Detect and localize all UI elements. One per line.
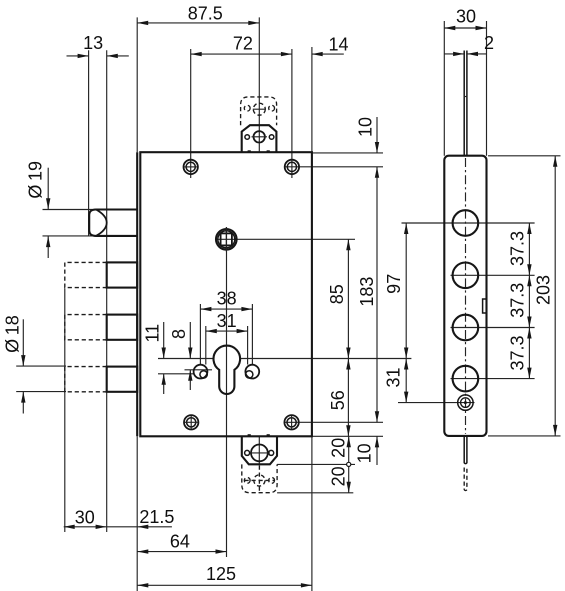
svg-text:31: 31 — [217, 311, 237, 331]
bottom deviator housing (dashed) — [242, 464, 277, 492]
dim 31 cluster line — [206, 329, 248, 333]
SECTION: left view — [65, 97, 312, 493]
wire strip screw center line — [398, 402, 475, 404]
svg-text:21.5: 21.5 — [139, 507, 174, 527]
bottom deviator dashed small hole right — [269, 478, 275, 484]
connecting rod top — [464, 51, 467, 156]
wire extension through top-left screw — [190, 49, 192, 178]
wire body bottom edge extension right — [312, 435, 383, 437]
dim 38 line — [200, 307, 252, 311]
svg-text:10: 10 — [355, 117, 375, 137]
wire bolt3 bottom extension line — [16, 391, 66, 393]
screw top-right — [285, 160, 299, 174]
cylinder fixing hole left outer — [194, 365, 208, 379]
svg-text:8: 8 — [169, 329, 189, 339]
wire strip circle1 center line — [402, 222, 535, 224]
connecting rod bottom dashed — [464, 468, 467, 491]
bolt hole circle 2 — [453, 263, 479, 289]
bottom fixing plate small hole right — [269, 450, 274, 455]
wire body right edge extension (bottom) — [311, 436, 313, 591]
wire 8-dim extension line — [185, 369, 213, 371]
bottom plate tab left — [248, 434, 251, 436]
wire latch top extension line — [43, 209, 138, 211]
wire top hinge centerline — [258, 17, 260, 152]
dim dia18 line — [21, 319, 25, 413]
dim 10 bottom line — [375, 436, 379, 465]
strip centerline dash-dot — [465, 158, 467, 434]
svg-text:85: 85 — [327, 284, 347, 304]
screw bottom-right — [284, 415, 298, 429]
wire latch bottom extension line — [43, 235, 138, 237]
svg-text:37.3: 37.3 — [507, 231, 527, 266]
dim 13 line — [67, 54, 129, 58]
wire bolt-tip retracted plane line — [106, 50, 108, 532]
deadbolt row3 — [107, 367, 138, 392]
bottom deviator dashed bore — [254, 475, 265, 486]
dim 56 line — [346, 359, 350, 437]
top deviator dashed small hole left — [244, 105, 250, 111]
svg-text:37.3: 37.3 — [507, 335, 527, 370]
dim 72 line — [191, 52, 292, 56]
top deviator dashed small hole right — [269, 105, 275, 111]
dim 183 line — [375, 167, 379, 422]
wire bolt-tip extended plane line — [64, 288, 66, 532]
svg-text:14: 14 — [328, 35, 348, 55]
wire bottom hinge centerline — [258, 436, 260, 464]
svg-text:Ø 19: Ø 19 — [26, 161, 46, 199]
wire top screw center extension right — [285, 166, 383, 168]
svg-text:20: 20 — [328, 466, 348, 486]
dim 125 line — [137, 583, 312, 587]
spindle follower inner circle — [218, 231, 235, 248]
bottom fixing plate bore centerline — [249, 452, 270, 454]
dim 64 line — [137, 549, 226, 553]
screw top-left — [184, 160, 198, 174]
top fixing plate (solid) — [242, 125, 277, 152]
svg-text:87.5: 87.5 — [188, 4, 223, 24]
deadbolt row2 — [107, 315, 138, 340]
top fixing plate small hole right — [269, 135, 274, 140]
svg-text:64: 64 — [170, 532, 190, 552]
deadbolt row3 extended (dashed) — [65, 367, 107, 392]
wire strip right edge extension up — [486, 21, 488, 156]
svg-text:30: 30 — [75, 508, 95, 528]
bolt hole circle 4 — [453, 366, 479, 392]
latch bolt bevel curve — [96, 210, 107, 236]
bottom plate tab right — [267, 434, 270, 436]
svg-text:38: 38 — [217, 289, 237, 309]
top plate tab right — [267, 150, 270, 152]
cylinder fixing hole right outer — [245, 365, 259, 379]
top fixing plate bore — [254, 131, 265, 142]
top deviator housing (dashed) — [241, 97, 277, 125]
svg-text:97: 97 — [384, 274, 404, 294]
wire strip left edge extension up — [443, 21, 445, 156]
wire extension through top-right screw — [291, 49, 293, 178]
strip fixing screw — [458, 395, 473, 410]
wire faceplate-plane extension line (top) — [136, 17, 138, 152]
spindle follower outer circle — [216, 229, 237, 250]
wire body top edge extension right — [312, 152, 383, 154]
bottom deviator dashed small hole left — [244, 478, 250, 484]
wire lock vertical axis through spindle and cylinder — [226, 227, 228, 557]
bolt hole circle 3 — [453, 315, 479, 341]
euro cylinder profile — [214, 346, 241, 394]
svg-text:72: 72 — [233, 33, 253, 53]
top fixing plate small hole left — [245, 135, 250, 140]
svg-text:Ø 18: Ø 18 — [2, 315, 22, 353]
dim 8 line — [188, 322, 192, 390]
svg-text:203: 203 — [534, 275, 554, 305]
dim 11 line — [162, 322, 166, 394]
svg-text:11: 11 — [143, 324, 163, 343]
lock body case — [140, 152, 312, 436]
dim 37.3 chain line — [527, 223, 531, 379]
wire bottom screw center extension right — [285, 421, 383, 423]
svg-text:2: 2 — [484, 33, 494, 53]
bolt hole circle 1 — [453, 210, 479, 236]
dim 85 line — [346, 239, 350, 358]
svg-text:13: 13 — [83, 33, 103, 53]
faceplate strip side view — [444, 156, 486, 436]
dim 10 top line — [375, 117, 379, 153]
dim 30 bottom line — [64, 525, 172, 529]
wire faceplate-plane extension line (bottom) — [136, 436, 138, 591]
wire latch-tip plane line — [88, 50, 90, 236]
bottom fixing plate bore — [251, 445, 268, 462]
screw bottom-left — [184, 415, 198, 429]
connecting rod bottom solid — [464, 436, 467, 464]
wire strip circle3 center line — [451, 327, 535, 329]
dim dia19 line — [46, 168, 50, 258]
svg-text:10: 10 — [355, 443, 375, 463]
deadbolt row1 extended (dashed) — [65, 262, 107, 287]
svg-text:20: 20 — [328, 438, 348, 458]
faceplate outer edge — [136, 152, 138, 436]
bottom fixing plate (solid) — [242, 436, 277, 464]
top deviator bore centerline — [253, 108, 266, 110]
cylinder fixing hole left inner — [200, 371, 207, 378]
spindle square hole — [221, 233, 232, 245]
top deviator dashed bore — [253, 103, 265, 115]
svg-text:31: 31 — [383, 367, 403, 387]
bottom fixing plate small hole left — [245, 450, 250, 455]
dim 2 line — [444, 52, 486, 56]
dim 97 31 line — [404, 223, 408, 403]
deadbolt row1 — [107, 262, 138, 287]
wire bolt3 top extension line — [16, 365, 66, 367]
top fixing plate bore centerline — [252, 136, 268, 138]
wire strip circle4 center line — [451, 378, 535, 380]
wire strip top extension right — [488, 155, 561, 157]
svg-text:125: 125 — [206, 564, 236, 584]
dim 87.5 line — [137, 21, 259, 25]
svg-text:56: 56 — [328, 390, 348, 410]
wire hinge joint extension right — [277, 463, 355, 465]
deadbolt row2 extended (dashed) — [65, 315, 107, 340]
wire 11-dim extension line — [158, 373, 195, 375]
svg-text:37.3: 37.3 — [507, 283, 527, 318]
latch bolt outline — [89, 210, 137, 236]
dim 14 line — [312, 52, 344, 56]
wire spindle center extension right — [216, 238, 355, 240]
wire 38-dim left extension — [199, 304, 201, 365]
bottom deviator dashed vertical centerline — [258, 466, 260, 492]
latch stop notch on strip edge — [483, 299, 487, 313]
wire strip circle2 center line — [451, 274, 535, 276]
bottom deviator bore dashed centerline — [245, 479, 275, 481]
cylinder fixing hole right inner — [246, 371, 253, 378]
dim 30 top line — [444, 26, 486, 30]
spindle vertical centerline — [225, 227, 227, 251]
SECTION: right view — [444, 51, 486, 491]
wire strip bottom extension right — [488, 435, 561, 437]
wire body right edge extension (top) — [311, 47, 313, 152]
rod joint mark — [464, 96, 468, 98]
svg-text:30: 30 — [456, 6, 476, 26]
dim 203 line — [553, 156, 557, 436]
svg-text:183: 183 — [357, 277, 377, 307]
wire 31-dim right extension — [247, 326, 249, 365]
wire 38-dim right extension — [251, 304, 253, 365]
wire cylinder center extension right — [158, 358, 213, 360]
top plate tab left — [248, 150, 251, 152]
wire 31-dim left extension — [205, 326, 207, 365]
dim 20 20 line — [347, 436, 351, 493]
wire lower dashed hinge bottom extension right — [277, 492, 353, 494]
